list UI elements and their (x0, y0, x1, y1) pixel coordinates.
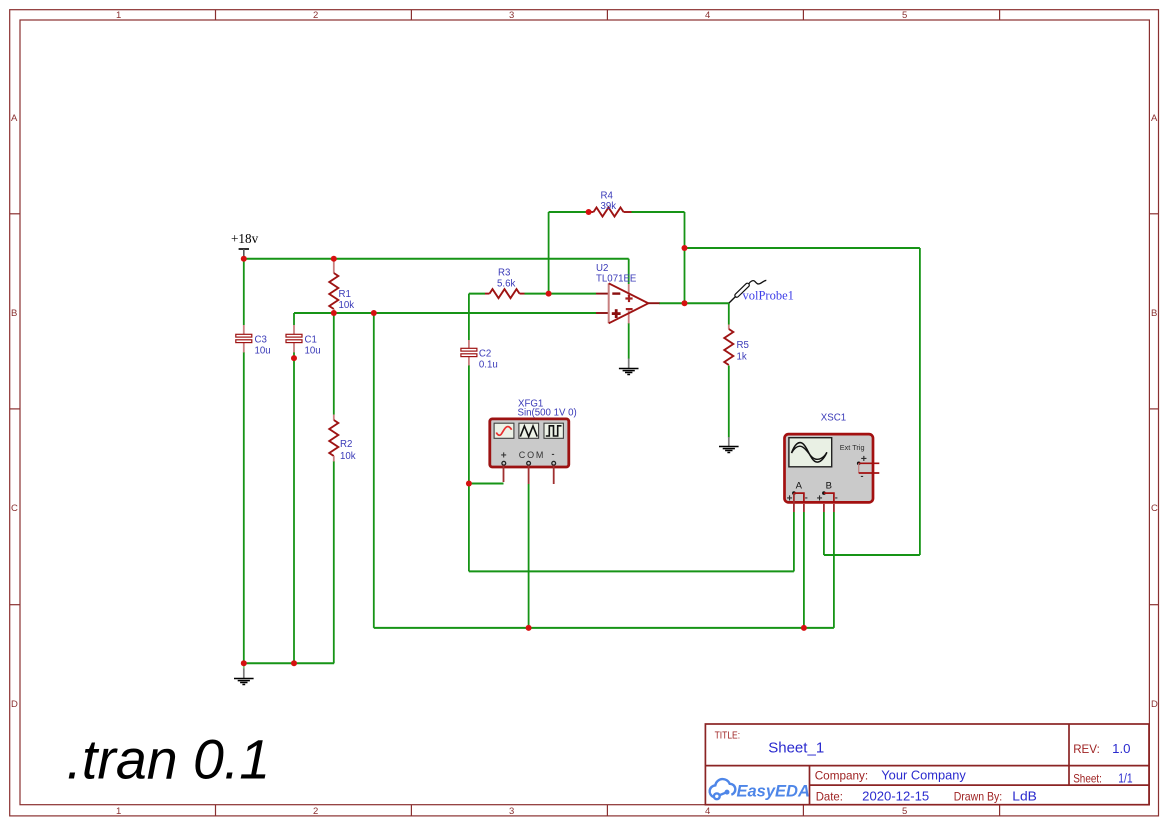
svg-text:3: 3 (509, 806, 514, 817)
svg-text:2: 2 (313, 10, 318, 21)
svg-text:C: C (1151, 503, 1158, 514)
svg-text:B: B (11, 308, 17, 319)
svg-text:-: - (552, 449, 555, 459)
svg-text:+: + (817, 494, 823, 505)
wire C2 vertical lower to XFG junction (468, 365, 470, 571)
svg-text:4: 4 (705, 10, 710, 21)
wire R2 lower vertical (333, 461, 335, 663)
wire R3 left segment (469, 293, 485, 295)
op-amp U2 (596, 263, 660, 323)
svg-text:C3: C3 (255, 335, 267, 346)
wire scope A plus vertical (793, 512, 795, 571)
svg-text:5: 5 (902, 10, 907, 21)
svg-text:Sheet:: Sheet: (1073, 771, 1102, 785)
wire op-amp V- to ground (628, 323, 630, 359)
svg-text:1k: 1k (737, 352, 747, 363)
wire output to scope row (685, 247, 920, 249)
svg-text:1/1: 1/1 (1118, 770, 1132, 785)
svg-text:TL071EE: TL071EE (596, 274, 637, 285)
power port +18v (231, 231, 259, 259)
svg-text:TITLE:: TITLE: (715, 730, 741, 742)
wire C3 branch vertical lower (243, 352, 245, 663)
svg-text:-: - (861, 471, 864, 481)
svg-text:Sin(500 1V 0): Sin(500 1V 0) (518, 408, 577, 419)
ground (op-amp) (619, 359, 639, 375)
svg-text:D: D (11, 699, 18, 710)
svg-text:10u: 10u (305, 346, 321, 357)
wire C2 vertical upper (468, 294, 470, 340)
function generator XFG1 (490, 399, 577, 485)
wire scope A minus vertical (803, 512, 805, 628)
svg-text:C: C (11, 503, 18, 514)
svg-text:3: 3 (509, 10, 514, 21)
wire C1 vertical upper (293, 313, 295, 325)
wire op-amp V+ (628, 259, 630, 284)
svg-text:Company:: Company: (815, 769, 869, 783)
svg-text:REV:: REV: (1073, 742, 1100, 756)
svg-text:10u: 10u (255, 346, 271, 357)
wire branch down from input row (373, 313, 375, 628)
wire R2 upper vertical (333, 313, 335, 415)
svg-text:LdB: LdB (1012, 789, 1037, 804)
svg-text:Sheet_1: Sheet_1 (768, 740, 824, 757)
wire scope B minus vertical (833, 512, 835, 628)
resistor R4 (589, 191, 632, 217)
ground (R5) (719, 437, 739, 453)
svg-text:C1: C1 (305, 335, 317, 346)
resistor R5 (724, 325, 749, 366)
svg-text:-: - (835, 493, 838, 503)
svg-text:B: B (826, 481, 832, 492)
wire R4 right vertical to output (684, 212, 686, 303)
svg-text:2: 2 (313, 806, 318, 817)
svg-text:A: A (1151, 113, 1158, 124)
wire R4 row right (632, 211, 685, 213)
svg-text:Drawn By:: Drawn By: (954, 790, 1003, 804)
EasyEDA logo (710, 779, 810, 800)
wire right long vertical (919, 248, 921, 555)
wire XFG plus junction horizontal (469, 483, 504, 485)
svg-text:.tran 0.1: .tran 0.1 (67, 729, 271, 791)
wire ground bus bottom-left (244, 662, 334, 664)
svg-text:R1: R1 (339, 289, 351, 300)
svg-text:A: A (11, 113, 18, 124)
svg-text:1.0: 1.0 (1112, 741, 1130, 756)
wire +18v rail horizontal (244, 258, 629, 260)
wire R5 lower vertical to ground (728, 366, 730, 438)
wire bottom bus (374, 627, 834, 629)
svg-text:0.1u: 0.1u (479, 360, 498, 371)
svg-text:R2: R2 (340, 439, 352, 450)
svg-text:10k: 10k (340, 451, 356, 462)
svg-text:A: A (796, 481, 803, 492)
wire XFG COM vertical (528, 484, 530, 628)
capacitor C3 (236, 325, 271, 357)
svg-text:U2: U2 (596, 263, 608, 274)
svg-text:R5: R5 (737, 340, 749, 351)
wire op-amp output row (659, 302, 729, 304)
svg-text:2020-12-15: 2020-12-15 (862, 789, 929, 804)
svg-text:1: 1 (116, 10, 121, 21)
resistor R3 (485, 268, 525, 299)
wire C3 branch vertical upper (243, 258, 245, 325)
svg-text:EasyEDA: EasyEDA (737, 783, 810, 801)
resistor R1 (329, 259, 354, 313)
svg-text:R3: R3 (498, 268, 510, 279)
svg-text:Ext Trig: Ext Trig (840, 443, 865, 452)
wire R5 upper vertical (728, 303, 730, 324)
svg-text:1: 1 (116, 806, 121, 817)
svg-text:D: D (1151, 699, 1158, 710)
wire R4 row left (549, 211, 589, 213)
svg-text:volProbe1: volProbe1 (743, 289, 794, 303)
svg-text:39k: 39k (601, 201, 617, 212)
ground (bottom-left) (234, 663, 254, 684)
svg-text:5: 5 (902, 806, 907, 817)
wire R4 left vertical (548, 212, 550, 294)
svg-text:C2: C2 (479, 349, 491, 360)
oscilloscope XSC1 (785, 413, 880, 513)
svg-text:4: 4 (705, 806, 710, 817)
svg-text:5.6k: 5.6k (497, 279, 515, 290)
svg-text:+: + (787, 494, 793, 505)
resistor R2 (329, 415, 355, 463)
svg-text:B: B (1151, 308, 1157, 319)
probe volProbe1 (729, 280, 794, 303)
svg-text:COM: COM (519, 450, 545, 460)
wire scope B plus vertical (823, 512, 825, 555)
junction node dots (241, 209, 807, 666)
wire R3 right segment to op-amp (525, 293, 597, 295)
svg-text:+: + (501, 451, 507, 462)
svg-text:Your Company: Your Company (881, 768, 966, 783)
wire C1 vertical lower (293, 352, 295, 663)
capacitor C1 (286, 325, 321, 357)
wire input row horizontal (294, 312, 596, 314)
capacitor C2 (461, 340, 498, 371)
svg-text:10k: 10k (339, 300, 355, 311)
title block (705, 724, 1149, 805)
svg-text:Date:: Date: (816, 790, 843, 804)
svg-text:-: - (805, 493, 808, 503)
wire to scope A plus horizontal (469, 570, 794, 572)
wire to scope B plus (824, 554, 920, 556)
svg-text:XSC1: XSC1 (821, 413, 846, 424)
svg-text:+18v: +18v (231, 231, 259, 246)
